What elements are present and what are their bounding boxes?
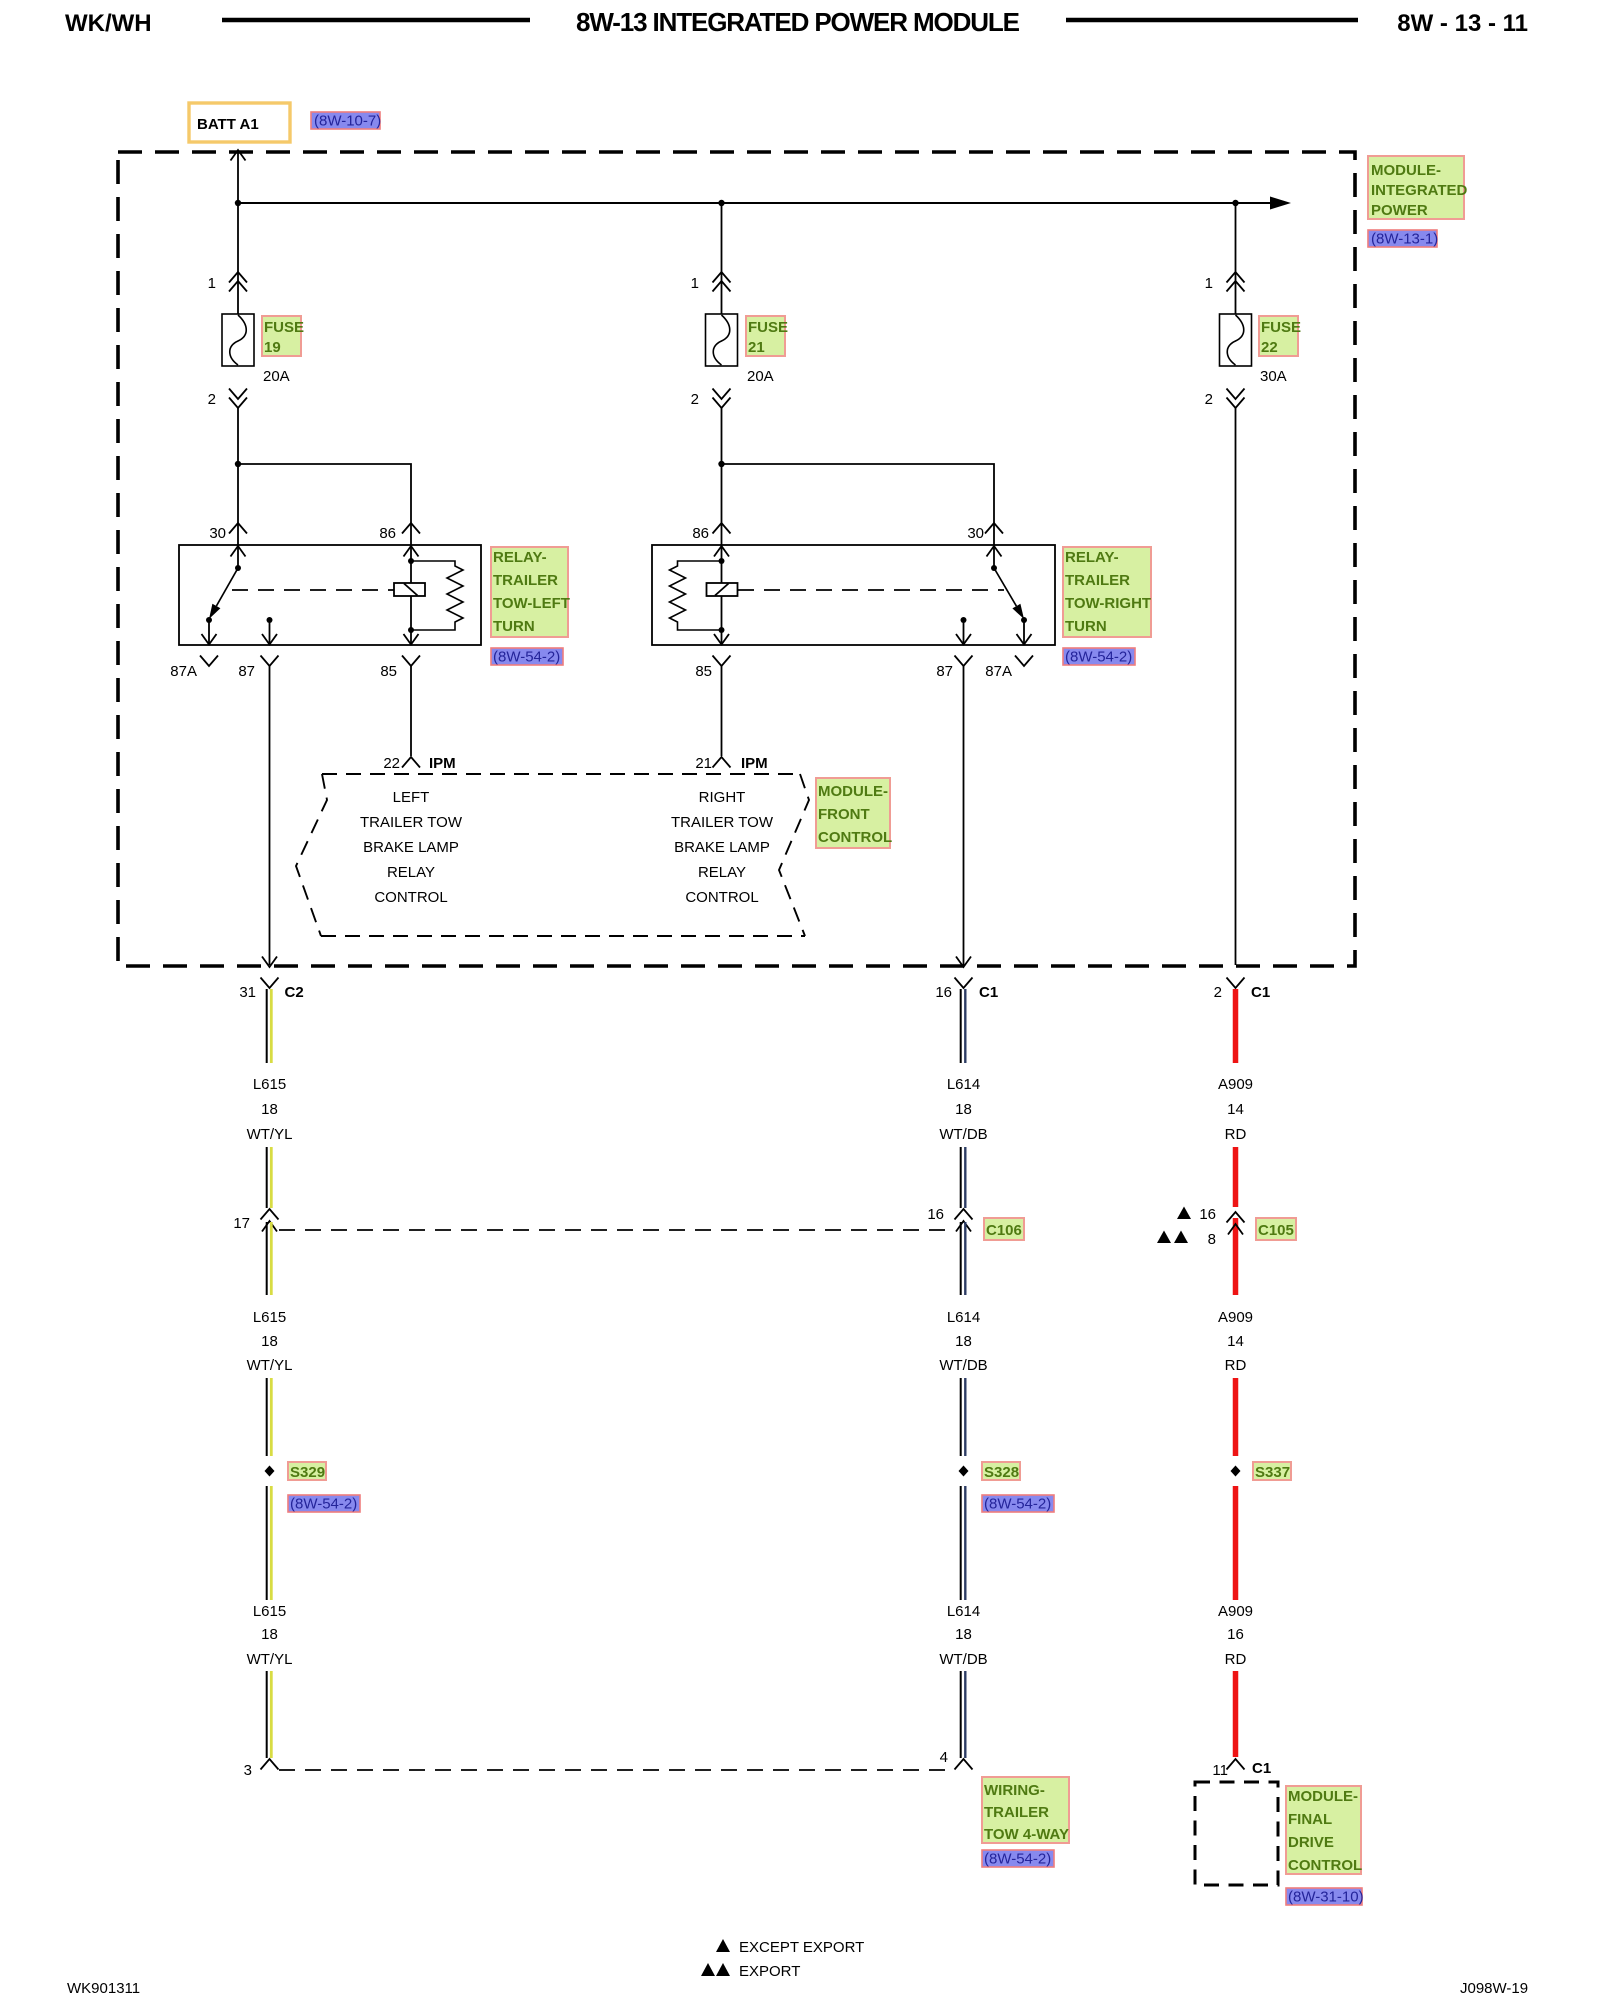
wire relay K2 pin 87 to module exit <box>963 666 965 965</box>
svg-text:2: 2 <box>1205 391 1213 408</box>
fuse F22 pin 2 connector <box>1227 389 1245 409</box>
final drive control module dashed box <box>1195 1782 1278 1885</box>
coil node dots <box>719 558 725 564</box>
svg-text:20A: 20A <box>747 368 774 385</box>
connector C105 arrow <box>1228 1224 1243 1235</box>
relay K1 pin 86 arrow <box>404 546 419 557</box>
svg-text:WT/YL: WT/YL <box>247 1357 293 1374</box>
svg-text:RELAY: RELAY <box>387 864 435 881</box>
svg-text:14: 14 <box>1227 1101 1244 1118</box>
svg-text:18: 18 <box>261 1333 278 1350</box>
svg-text:1: 1 <box>691 275 699 292</box>
wire bus to fuse F21 <box>721 203 723 314</box>
svg-text:8: 8 <box>1208 1231 1216 1248</box>
junction dot <box>235 461 241 467</box>
svg-text:WT/DB: WT/DB <box>939 1651 987 1668</box>
svg-text:RD: RD <box>1225 1651 1247 1668</box>
svg-text:EXPORT: EXPORT <box>739 1963 800 1980</box>
svg-text:86: 86 <box>379 525 396 542</box>
wire L615 segment 6 <box>267 1671 272 1758</box>
relay K1 pin 87 contact dot <box>267 617 273 623</box>
svg-text:FRONT: FRONT <box>818 806 870 823</box>
svg-text:18: 18 <box>955 1333 972 1350</box>
svg-text:14: 14 <box>1227 1333 1244 1350</box>
wire L615 segment 5 <box>267 1486 272 1600</box>
svg-text:8W - 13 - 11: 8W - 13 - 11 <box>1397 10 1528 37</box>
svg-text:BATT A1: BATT A1 <box>197 116 259 133</box>
dashed link line to pin 4 <box>279 1769 954 1771</box>
svg-text:IPM: IPM <box>741 755 768 772</box>
page reference (8W-10-7) <box>311 112 381 130</box>
svg-text:16: 16 <box>927 1206 944 1223</box>
svg-text:22: 22 <box>1261 339 1278 356</box>
connector C106 pin 16 arrow <box>956 1221 971 1232</box>
wire L614 segment 2 <box>961 1147 966 1208</box>
FCM pin 21 connector chevron <box>713 757 731 768</box>
dashed link line C106 <box>279 1229 954 1231</box>
splice S329 <box>265 1466 275 1477</box>
wire relay K1 pin 87 to module exit <box>269 666 271 965</box>
module exit arrow col1 <box>262 957 277 968</box>
svg-text:L615: L615 <box>253 1603 286 1620</box>
page reference (8W-54-2) <box>982 1495 1054 1513</box>
svg-text:TURN: TURN <box>1065 618 1107 635</box>
svg-text:16: 16 <box>1199 1206 1216 1223</box>
wire L614 segment 5 <box>961 1486 966 1600</box>
wire A909 segment 4 <box>1233 1378 1239 1456</box>
wire label L615 18 WT/YL <box>247 1076 293 1143</box>
page reference (8W-54-2) <box>1063 648 1135 666</box>
svg-text:85: 85 <box>380 663 397 680</box>
relay K2 pin 87A stem and arrow <box>1017 620 1032 645</box>
relay K2 pin 30 arrow <box>987 546 1002 568</box>
header rule right <box>1066 18 1358 22</box>
svg-text:CONTROL: CONTROL <box>818 829 892 846</box>
svg-text:1: 1 <box>208 275 216 292</box>
final drive module connector C1 pin 11 chevron <box>1227 1759 1245 1770</box>
svg-text:(8W-10-7): (8W-10-7) <box>314 113 381 130</box>
svg-text:A909: A909 <box>1218 1603 1253 1620</box>
relay K1 pin 30 connector chevron <box>229 523 247 534</box>
svg-text:MODULE-: MODULE- <box>818 783 888 800</box>
svg-text:J098W-19: J098W-19 <box>1460 1980 1528 1997</box>
svg-text:17: 17 <box>233 1215 250 1232</box>
wire fuse F19 to relay K1 pin 30 <box>237 408 239 545</box>
splice S337 <box>1231 1466 1241 1477</box>
wire bus to fuse F19 <box>237 203 239 314</box>
wire branch to relay K2 pin 30 <box>722 464 995 545</box>
svg-text:L615: L615 <box>253 1076 286 1093</box>
fuse F19 <box>222 314 254 366</box>
export triangle markers <box>1157 1231 1171 1244</box>
svg-text:A909: A909 <box>1218 1309 1253 1326</box>
svg-text:C106: C106 <box>986 1222 1022 1239</box>
page reference (8W-54-2) <box>982 1850 1054 1868</box>
wire label L614 18 WT/DB <box>939 1603 987 1668</box>
svg-text:WT/DB: WT/DB <box>939 1357 987 1374</box>
relay K2 pin 85 arrow at box edge <box>714 634 729 645</box>
label FUSE 22 <box>1259 316 1301 356</box>
wire A909 segment 2 <box>1233 1147 1239 1207</box>
relay K1 pin 86 connector chevron <box>402 523 420 534</box>
splice label S328 <box>982 1462 1020 1481</box>
page reference (8W-54-2) <box>288 1495 360 1513</box>
svg-text:CONTROL: CONTROL <box>1288 1857 1362 1874</box>
svg-text:31: 31 <box>239 984 256 1001</box>
relay K1 pin 87A stem and arrow <box>202 620 217 645</box>
svg-text:LEFT: LEFT <box>393 789 430 806</box>
connector C106 pin 17 chevron <box>261 1209 279 1220</box>
wire bus to fuse F22 <box>1235 203 1237 314</box>
svg-text:8W-13 INTEGRATED POWER MODULE: 8W-13 INTEGRATED POWER MODULE <box>576 7 1020 37</box>
svg-text:L614: L614 <box>947 1309 980 1326</box>
header rule left <box>222 18 530 22</box>
svg-text:85: 85 <box>695 663 712 680</box>
svg-text:(8W-31-10): (8W-31-10) <box>1288 1889 1364 1906</box>
svg-text:3: 3 <box>244 1762 252 1779</box>
svg-text:TRAILER: TRAILER <box>1065 572 1130 589</box>
trailer tow connector pin 3 chevron <box>261 1759 279 1770</box>
relay K2 coil wire <box>721 546 723 644</box>
module label MODULE-INTEGRATED POWER <box>1368 156 1468 219</box>
wire label A909 16 RD <box>1218 1603 1253 1668</box>
wire L614 segment 4 <box>961 1378 966 1456</box>
relay K1 coil symbol <box>394 583 425 596</box>
arrow into BATT A1 <box>231 150 246 161</box>
svg-text:RD: RD <box>1225 1357 1247 1374</box>
svg-text:C1: C1 <box>1251 984 1270 1001</box>
svg-text:TURN: TURN <box>493 618 535 635</box>
svg-text:(8W-54-2): (8W-54-2) <box>1065 649 1132 666</box>
label FUSE 21 <box>746 316 788 356</box>
svg-text:TRAILER TOW: TRAILER TOW <box>360 814 463 831</box>
junction dot col2 <box>718 200 724 206</box>
relay K2 pin 30 connector chevron <box>985 523 1003 534</box>
connector C1 pin 2 chevron <box>1227 978 1245 989</box>
relay K1 suppression resistor <box>411 561 463 630</box>
label MODULE-FRONT CONTROL <box>816 778 892 848</box>
svg-text:2: 2 <box>1214 984 1222 1001</box>
relay K1 control dashed line <box>232 589 394 591</box>
svg-text:CONTROL: CONTROL <box>685 889 758 906</box>
pin 85 connector chevron below box <box>713 656 731 667</box>
relay K1 pin 87A contact dot <box>206 617 212 623</box>
svg-text:RIGHT: RIGHT <box>699 789 746 806</box>
page reference (8W-54-2) <box>491 648 563 666</box>
svg-text:87: 87 <box>238 663 255 680</box>
wire branch to relay K1 pin 86 <box>238 464 411 545</box>
fuse F22 <box>1220 314 1252 366</box>
svg-text:18: 18 <box>955 1101 972 1118</box>
svg-text:DRIVE: DRIVE <box>1288 1834 1334 1851</box>
svg-text:BRAKE LAMP: BRAKE LAMP <box>363 839 459 856</box>
trailer tow connector pin 4 chevron <box>955 1759 973 1770</box>
coil node dots <box>408 558 414 564</box>
connector label C106 <box>984 1218 1024 1240</box>
svg-text:CONTROL: CONTROL <box>374 889 447 906</box>
relay K1 common node dot <box>235 565 241 571</box>
front control module dashed outline <box>296 774 809 936</box>
relay K2 trailer tow right turn box <box>652 545 1055 645</box>
svg-text:IPM: IPM <box>429 755 456 772</box>
svg-text:EXCEPT EXPORT: EXCEPT EXPORT <box>739 1939 864 1956</box>
svg-text:TOW-LEFT: TOW-LEFT <box>493 595 570 612</box>
svg-text:C105: C105 <box>1258 1222 1294 1239</box>
wire fuse F21 to relay K2 pin 86 <box>721 408 723 545</box>
svg-text:C1: C1 <box>979 984 998 1001</box>
module exit arrow col2 <box>956 957 971 968</box>
page reference (8W-31-10) <box>1286 1888 1364 1906</box>
svg-text:RELAY-: RELAY- <box>1065 549 1119 566</box>
svg-text:(8W-54-2): (8W-54-2) <box>493 649 560 666</box>
label WIRING-TRAILER TOW 4-WAY <box>982 1777 1069 1843</box>
relay K1 pin 30 arrow <box>231 546 246 568</box>
wire label L615 18 WT/YL <box>247 1603 293 1668</box>
wire label A909 14 RD <box>1218 1309 1253 1374</box>
svg-text:L615: L615 <box>253 1309 286 1326</box>
junction dot <box>718 461 724 467</box>
junction dot col3 <box>1232 200 1238 206</box>
connector C1 pin 16 chevron <box>955 978 973 989</box>
wire L614 segment 3 <box>961 1222 966 1295</box>
fuse F21 <box>706 314 738 366</box>
relay K1 coil wire <box>410 546 412 644</box>
pin 87A connector chevron below box <box>200 656 218 667</box>
wire L614 segment 1 <box>961 989 966 1063</box>
relay K2 pin 87A contact dot <box>1021 617 1027 623</box>
svg-text:30: 30 <box>967 525 984 542</box>
wire A909 segment 3 <box>1233 1218 1239 1295</box>
wire A909 segment 1 <box>1233 989 1239 1063</box>
svg-text:16: 16 <box>1227 1626 1244 1643</box>
svg-text:S337: S337 <box>1255 1464 1290 1481</box>
junction dot col1 <box>235 200 241 206</box>
pin 87 connector chevron below box <box>955 656 973 667</box>
svg-text:87: 87 <box>936 663 953 680</box>
wire label A909 14 RD <box>1218 1076 1253 1143</box>
svg-text:S329: S329 <box>290 1464 325 1481</box>
fuse F21 pin 1 connector <box>713 272 731 292</box>
svg-text:21: 21 <box>695 755 712 772</box>
FCM right trailer tow brake lamp relay control text <box>671 789 774 906</box>
battery feed BATT A1 box <box>189 103 290 142</box>
svg-text:87A: 87A <box>170 663 197 680</box>
fuse F22 pin 1 connector <box>1227 272 1245 292</box>
svg-text:2: 2 <box>208 391 216 408</box>
svg-text:(8W-54-2): (8W-54-2) <box>290 1496 357 1513</box>
svg-text:C2: C2 <box>285 984 304 1001</box>
svg-text:POWER: POWER <box>1371 202 1428 219</box>
svg-text:C1: C1 <box>1252 1760 1271 1777</box>
wire L615 segment 3 <box>267 1222 272 1295</box>
FCM pin 22 connector chevron <box>402 757 420 768</box>
svg-text:WT/YL: WT/YL <box>247 1651 293 1668</box>
wire L614 segment 6 <box>961 1671 966 1758</box>
svg-text:RD: RD <box>1225 1126 1247 1143</box>
relay K2 coil symbol <box>707 583 738 596</box>
svg-text:(8W-54-2): (8W-54-2) <box>984 1851 1051 1868</box>
svg-text:INTEGRATED: INTEGRATED <box>1371 182 1468 199</box>
svg-text:RELAY-: RELAY- <box>493 549 547 566</box>
label MODULE-FINAL DRIVE CONTROL <box>1286 1786 1362 1874</box>
svg-text:21: 21 <box>748 339 765 356</box>
wire L615 segment 1 <box>267 989 272 1063</box>
svg-text:A909: A909 <box>1218 1076 1253 1093</box>
svg-text:2: 2 <box>691 391 699 408</box>
connector C2 pin 31 chevron <box>261 978 279 989</box>
svg-text:RELAY: RELAY <box>698 864 746 881</box>
relay K2 switch arm <box>994 568 1024 619</box>
relay K1 pin 87 stem and arrow <box>262 620 277 645</box>
label RELAY-TRAILER TOW-RIGHT TURN <box>1063 547 1151 637</box>
pin 87A connector chevron below box <box>1015 656 1033 667</box>
svg-text:S328: S328 <box>984 1464 1019 1481</box>
wire relay K2 pin 85 to FCM pin 21 <box>721 666 723 756</box>
splice label S337 <box>1253 1462 1291 1481</box>
svg-text:MODULE-: MODULE- <box>1288 1788 1358 1805</box>
fuse F19 pin 1 connector <box>229 272 247 292</box>
relay K2 control dashed line <box>738 589 1004 591</box>
svg-text:4: 4 <box>940 1749 948 1766</box>
wire L615 segment 2 <box>267 1147 272 1208</box>
svg-text:18: 18 <box>261 1626 278 1643</box>
svg-text:30A: 30A <box>1260 368 1287 385</box>
svg-text:L614: L614 <box>947 1603 980 1620</box>
relay K2 pin 86 connector chevron <box>713 523 731 534</box>
label RELAY-TRAILER TOW-LEFT TURN <box>491 547 570 637</box>
wire from BATT A1 down to bus <box>237 152 239 203</box>
svg-text:TRAILER TOW: TRAILER TOW <box>671 814 774 831</box>
svg-text:TRAILER: TRAILER <box>984 1804 1049 1821</box>
connector C106 pin 17 arrow <box>262 1221 277 1232</box>
wire label L614 18 WT/DB <box>939 1309 987 1374</box>
svg-text:16: 16 <box>935 984 952 1001</box>
relay K2 pin 87 stem and arrow <box>956 620 971 645</box>
fuse F19 pin 2 connector <box>229 389 247 409</box>
svg-text:WK/WH: WK/WH <box>65 10 152 37</box>
wire fuse F22 down to module exit <box>1235 408 1237 965</box>
wire L615 segment 4 <box>267 1378 272 1456</box>
wire label L614 18 WT/DB <box>939 1076 987 1143</box>
svg-text:WT/DB: WT/DB <box>939 1126 987 1143</box>
relay K2 pin 87 contact dot <box>961 617 967 623</box>
connector label C105 <box>1256 1218 1296 1240</box>
svg-text:18: 18 <box>261 1101 278 1118</box>
wire label L615 18 WT/YL <box>247 1309 293 1374</box>
label FUSE 19 <box>262 316 304 356</box>
pin 87 connector chevron below box <box>261 656 279 667</box>
legend export markers <box>701 1963 715 1976</box>
svg-text:FINAL: FINAL <box>1288 1811 1332 1828</box>
svg-text:20A: 20A <box>263 368 290 385</box>
wire A909 segment 5 <box>1233 1486 1239 1600</box>
relay K1 switch arm <box>209 568 238 619</box>
svg-text:TOW 4-WAY: TOW 4-WAY <box>984 1826 1069 1843</box>
svg-text:87A: 87A <box>985 663 1012 680</box>
bus arrow right <box>1270 197 1291 210</box>
svg-text:WK901311: WK901311 <box>67 1980 140 1997</box>
svg-text:FUSE: FUSE <box>264 319 304 336</box>
wire A909 segment 6 <box>1233 1671 1239 1757</box>
svg-text:BRAKE LAMP: BRAKE LAMP <box>674 839 770 856</box>
connector C105 chevron <box>1227 1212 1245 1223</box>
svg-text:L614: L614 <box>947 1076 980 1093</box>
splice S328 <box>959 1466 969 1477</box>
svg-text:1: 1 <box>1205 275 1213 292</box>
relay K2 suppression resistor <box>670 561 722 630</box>
splice label S329 <box>288 1462 326 1481</box>
relay K1 trailer tow left turn box <box>179 545 481 645</box>
except export triangle marker <box>1177 1207 1191 1220</box>
relay K2 common node dot <box>991 565 997 571</box>
svg-text:TRAILER: TRAILER <box>493 572 558 589</box>
svg-text:(8W-54-2): (8W-54-2) <box>984 1496 1051 1513</box>
svg-text:22: 22 <box>383 755 400 772</box>
wire relay K1 pin 85 to FCM pin 22 <box>410 666 412 756</box>
connector C106 pin 16 chevron <box>955 1209 973 1220</box>
svg-text:FUSE: FUSE <box>1261 319 1301 336</box>
svg-text:86: 86 <box>692 525 709 542</box>
legend except export marker <box>716 1939 730 1952</box>
page reference (8W-13-1) <box>1368 230 1438 248</box>
pin 85 connector chevron below box <box>402 656 420 667</box>
fuse F21 pin 2 connector <box>713 389 731 409</box>
FCM left trailer tow brake lamp relay control text <box>360 789 463 906</box>
bus wire B+ horizontal <box>238 202 1270 204</box>
svg-text:WIRING-: WIRING- <box>984 1782 1045 1799</box>
relay K2 pin 86 arrow <box>714 546 729 557</box>
svg-text:FUSE: FUSE <box>748 319 788 336</box>
svg-text:(8W-13-1): (8W-13-1) <box>1371 231 1438 248</box>
svg-text:TOW-RIGHT: TOW-RIGHT <box>1065 595 1151 612</box>
module boundary: integrated power module dashed box <box>118 152 1355 966</box>
relay K1 pin 85 arrow at box edge <box>404 634 419 645</box>
svg-text:11: 11 <box>1212 1762 1228 1779</box>
svg-text:30: 30 <box>209 525 226 542</box>
svg-text:19: 19 <box>264 339 281 356</box>
svg-text:WT/YL: WT/YL <box>247 1126 293 1143</box>
svg-text:MODULE-: MODULE- <box>1371 162 1441 179</box>
svg-text:18: 18 <box>955 1626 972 1643</box>
